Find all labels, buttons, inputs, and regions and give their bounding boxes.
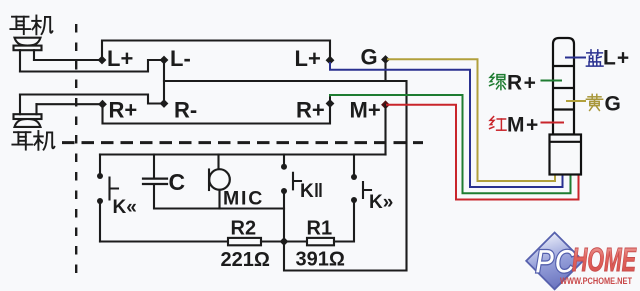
- plug P1 (3.5mm TRRS): [550, 38, 582, 175]
- dashed separator horizontal (cable boundary): [62, 141, 423, 144]
- svg-text:R2: R2: [231, 218, 257, 240]
- node L+ (first): [98, 56, 107, 65]
- svg-text:HOME: HOME: [572, 241, 637, 278]
- wire left drop to switch K1: [99, 155, 101, 177]
- wire SP1+ to L+ node: [34, 59, 102, 61]
- wire bottom rail left to R2: [100, 240, 228, 242]
- wire K2 down to junction: [283, 191, 285, 242]
- leader tick red (sleeve M+): [541, 122, 565, 124]
- label HUANG yellow char: [586, 94, 602, 110]
- wire ground bus: G node down, across, down right side, around 391ohm box, up to junction: [164, 60, 407, 271]
- resistor R1 box: [307, 238, 334, 245]
- svg-text:221Ω: 221Ω: [221, 249, 270, 271]
- plug shaft: [553, 38, 574, 135]
- plug base: [550, 135, 582, 175]
- label ERJI top (headphone): [10, 16, 52, 35]
- speaker SP1 (top headphone driver): [14, 38, 42, 72]
- switch K1 (K&#171;): [97, 173, 118, 204]
- wire K1 to bottom rail: [99, 201, 101, 242]
- wire R2 to junction: [261, 240, 307, 242]
- wire yellow G to plug: [387, 59, 555, 181]
- node G: [381, 55, 390, 64]
- svg-text:M+: M+: [350, 98, 381, 123]
- node junction R2/R1/ground: [280, 237, 289, 246]
- svg-text:L-: L-: [170, 46, 191, 71]
- wire SP1- loop to L- node: [20, 60, 164, 72]
- svg-text:C: C: [169, 169, 186, 195]
- green stub painted black at node: [329, 97, 331, 104]
- svg-text:R1: R1: [307, 218, 333, 240]
- colored cable wires: [330, 59, 579, 199]
- microphone MIC lead from top rail: [217, 155, 219, 170]
- svg-text:R-: R-: [174, 98, 197, 123]
- capacitor C1 top lead: [153, 155, 155, 179]
- node R+ (first): [98, 100, 107, 109]
- svg-text:K‖: K‖: [300, 181, 323, 202]
- wire blue L+ to plug: [330, 62, 563, 187]
- node R+ (second): [326, 99, 335, 108]
- switch K3 (K&#187;): [351, 174, 371, 203]
- speaker SP2 (bottom headphone driver): [14, 95, 42, 127]
- microphone MIC bottom lead: [218, 190, 220, 209]
- svg-text:L+: L+: [107, 46, 133, 71]
- wire L- to R- vertical: [163, 60, 165, 104]
- node L-: [160, 56, 169, 65]
- svg-text:L+: L+: [603, 47, 630, 70]
- svg-text:R+: R+: [296, 98, 325, 123]
- svg-text:R+: R+: [507, 72, 537, 95]
- svg-text:MIC: MIC: [223, 188, 264, 210]
- wire top rail of mic circuit: [100, 153, 386, 155]
- watermark diamond: [526, 233, 583, 290]
- leader tick yellow (ring G): [566, 100, 586, 102]
- wire SP2+ to R+ node: [37, 103, 103, 105]
- switch K2 (K&#8214;): [281, 164, 301, 194]
- leader tick green (ring R+): [541, 80, 563, 82]
- wire R+ down and across to second R+: [103, 104, 331, 124]
- wire drop to switch K2: [283, 155, 285, 167]
- wire SP2- step to R- node: [20, 95, 164, 104]
- plug base collar line: [550, 141, 582, 143]
- plug ring dividers: [553, 66, 574, 110]
- wire R1 to K3: [334, 200, 354, 242]
- capacitor C1 plates: [143, 179, 167, 184]
- resistor R2 box: [228, 238, 261, 245]
- wire L+ node up and across top to second L+: [102, 41, 330, 61]
- svg-text:L+: L+: [295, 46, 321, 71]
- svg-text:K«: K«: [113, 197, 137, 218]
- wire M+ node down to mic rail: [384, 105, 386, 155]
- label ERJI bottom (headphone): [12, 131, 54, 150]
- wire red M+ to plug: [386, 105, 579, 200]
- label HONG red char: [490, 117, 506, 131]
- wire green R+ to plug: [330, 95, 571, 193]
- wire drop to switch K3: [353, 155, 355, 178]
- node L+ (second): [326, 56, 335, 65]
- svg-text:391Ω: 391Ω: [296, 249, 345, 271]
- node R-: [160, 99, 169, 108]
- svg-text:K»: K»: [369, 192, 393, 213]
- svg-text:G: G: [605, 93, 621, 116]
- svg-text:M+: M+: [507, 114, 540, 137]
- svg-text:WWW.PCHOME.NET: WWW.PCHOME.NET: [560, 276, 632, 287]
- microphone MIC body: [209, 169, 230, 190]
- svg-text:R+: R+: [109, 98, 138, 123]
- svg-text:G: G: [361, 45, 378, 70]
- label LAN blue char: [586, 50, 603, 66]
- label LV green char: [490, 74, 506, 90]
- leader tick blue (tip L+): [565, 57, 586, 59]
- capacitor C1 bottom lead and rail to K2 vertical: [154, 184, 284, 209]
- watermark PCHOME logo: [526, 233, 636, 290]
- dashed separator vertical (headphone boundary): [75, 24, 77, 282]
- node M+: [381, 100, 390, 109]
